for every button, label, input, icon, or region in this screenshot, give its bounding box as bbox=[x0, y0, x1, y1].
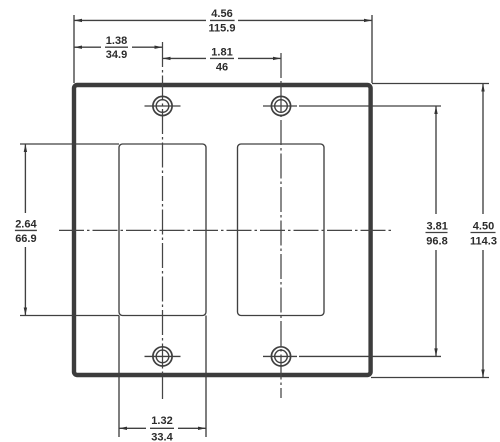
centerline vertical right bbox=[280, 53, 282, 398]
screw hole top-left bbox=[145, 96, 181, 115]
dimension 4.50/114.3 overall height bbox=[371, 84, 497, 378]
dimension 2.64/66.9 opening height bbox=[15, 144, 119, 316]
centerline vertical left bbox=[162, 42, 164, 399]
centerline horizontal bbox=[59, 229, 392, 231]
svg-text:1.38: 1.38 bbox=[106, 35, 127, 47]
svg-text:4.56: 4.56 bbox=[211, 8, 232, 20]
right opening bbox=[238, 144, 325, 316]
svg-text:2.64: 2.64 bbox=[15, 218, 37, 230]
svg-text:3.81: 3.81 bbox=[426, 221, 447, 233]
dimension 4.56/115.9 overall width bbox=[74, 8, 372, 83]
screw hole bottom-right bbox=[263, 347, 297, 366]
screw hole bottom-left bbox=[145, 347, 181, 366]
svg-text:46: 46 bbox=[216, 61, 228, 73]
svg-text:115.9: 115.9 bbox=[209, 23, 236, 35]
plate outline bbox=[74, 85, 371, 375]
svg-text:1.81: 1.81 bbox=[211, 46, 232, 58]
svg-text:114.3: 114.3 bbox=[470, 235, 497, 247]
svg-text:4.50: 4.50 bbox=[473, 221, 494, 233]
svg-text:33.4: 33.4 bbox=[151, 432, 173, 442]
svg-text:96.8: 96.8 bbox=[426, 235, 447, 247]
dimension 1.32/33.4 opening width bbox=[119, 316, 206, 442]
svg-text:34.9: 34.9 bbox=[106, 49, 127, 61]
screw hole top-right bbox=[263, 96, 297, 115]
svg-text:66.9: 66.9 bbox=[15, 233, 36, 245]
dimension 1.81/46 screw column spacing bbox=[163, 46, 282, 73]
svg-text:1.32: 1.32 bbox=[151, 415, 172, 427]
dimension 1.38/34.9 edge to first screw column bbox=[74, 35, 163, 61]
left opening bbox=[119, 144, 206, 316]
dimension 3.81/96.8 screw vertical spacing bbox=[299, 106, 448, 356]
